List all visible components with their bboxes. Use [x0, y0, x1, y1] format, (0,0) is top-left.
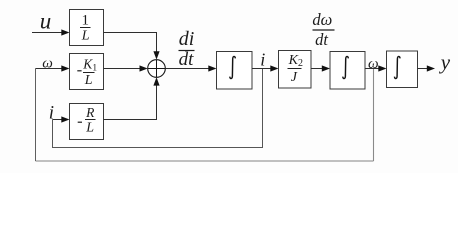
integrator U1 [217, 52, 253, 90]
svg-text:L: L [85, 121, 94, 136]
svg-text:i: i [49, 103, 54, 124]
svg-text:di: di [179, 28, 195, 50]
label dw/dt [312, 10, 334, 49]
wire omega feedback right vertical [373, 69, 375, 162]
wire i input [53, 119, 63, 121]
wire summing junction to integrator 1 [165, 68, 209, 70]
label di/dt [179, 28, 195, 70]
svg-text:J: J [291, 70, 298, 85]
svg-text:dω: dω [312, 10, 332, 29]
block K2/J [279, 51, 312, 89]
svg-text:dt: dt [315, 30, 328, 49]
svg-text:ω: ω [368, 56, 379, 72]
integrator U2 [330, 52, 365, 90]
wire omega input [36, 68, 63, 70]
summing junction [148, 60, 166, 78]
wire K2/J to integrator 2 [311, 68, 323, 70]
wire 1/L output to summing junction top [104, 33, 157, 52]
svg-text:L: L [84, 73, 93, 88]
wire integrator1 to K2/J [252, 68, 271, 70]
svg-text:dt: dt [179, 49, 195, 70]
svg-text:y: y [439, 50, 451, 74]
wire output y [418, 68, 428, 70]
integrator U3 [387, 51, 418, 88]
wire omega feedback left vertical [35, 69, 37, 162]
svg-text:u: u [40, 9, 52, 34]
block 1/L [70, 10, 104, 46]
wire -R/L output to summing junction bottom [104, 85, 157, 119]
wire i feedback [53, 69, 263, 148]
wire integrator2 to integrator3 [365, 68, 379, 70]
block -K1/L [70, 54, 104, 90]
svg-text:L: L [81, 28, 90, 43]
wire omega feedback bottom horizontal [36, 160, 374, 162]
wire u input [32, 32, 62, 34]
svg-text:i: i [260, 50, 265, 70]
block -R/L [70, 104, 104, 140]
svg-text:1: 1 [82, 12, 90, 28]
svg-text:R: R [85, 105, 95, 120]
wire -K1/L output to summing junction [104, 68, 141, 70]
svg-text:ω: ω [42, 56, 53, 72]
